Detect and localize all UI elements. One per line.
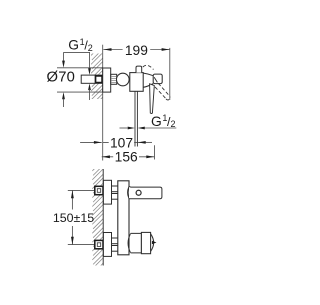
svg-text:107: 107 <box>110 135 133 150</box>
svg-text:150±15: 150±15 <box>53 211 94 225</box>
svg-text:Ø70: Ø70 <box>47 70 76 86</box>
svg-text:199: 199 <box>125 43 148 58</box>
svg-text:156: 156 <box>115 150 138 165</box>
